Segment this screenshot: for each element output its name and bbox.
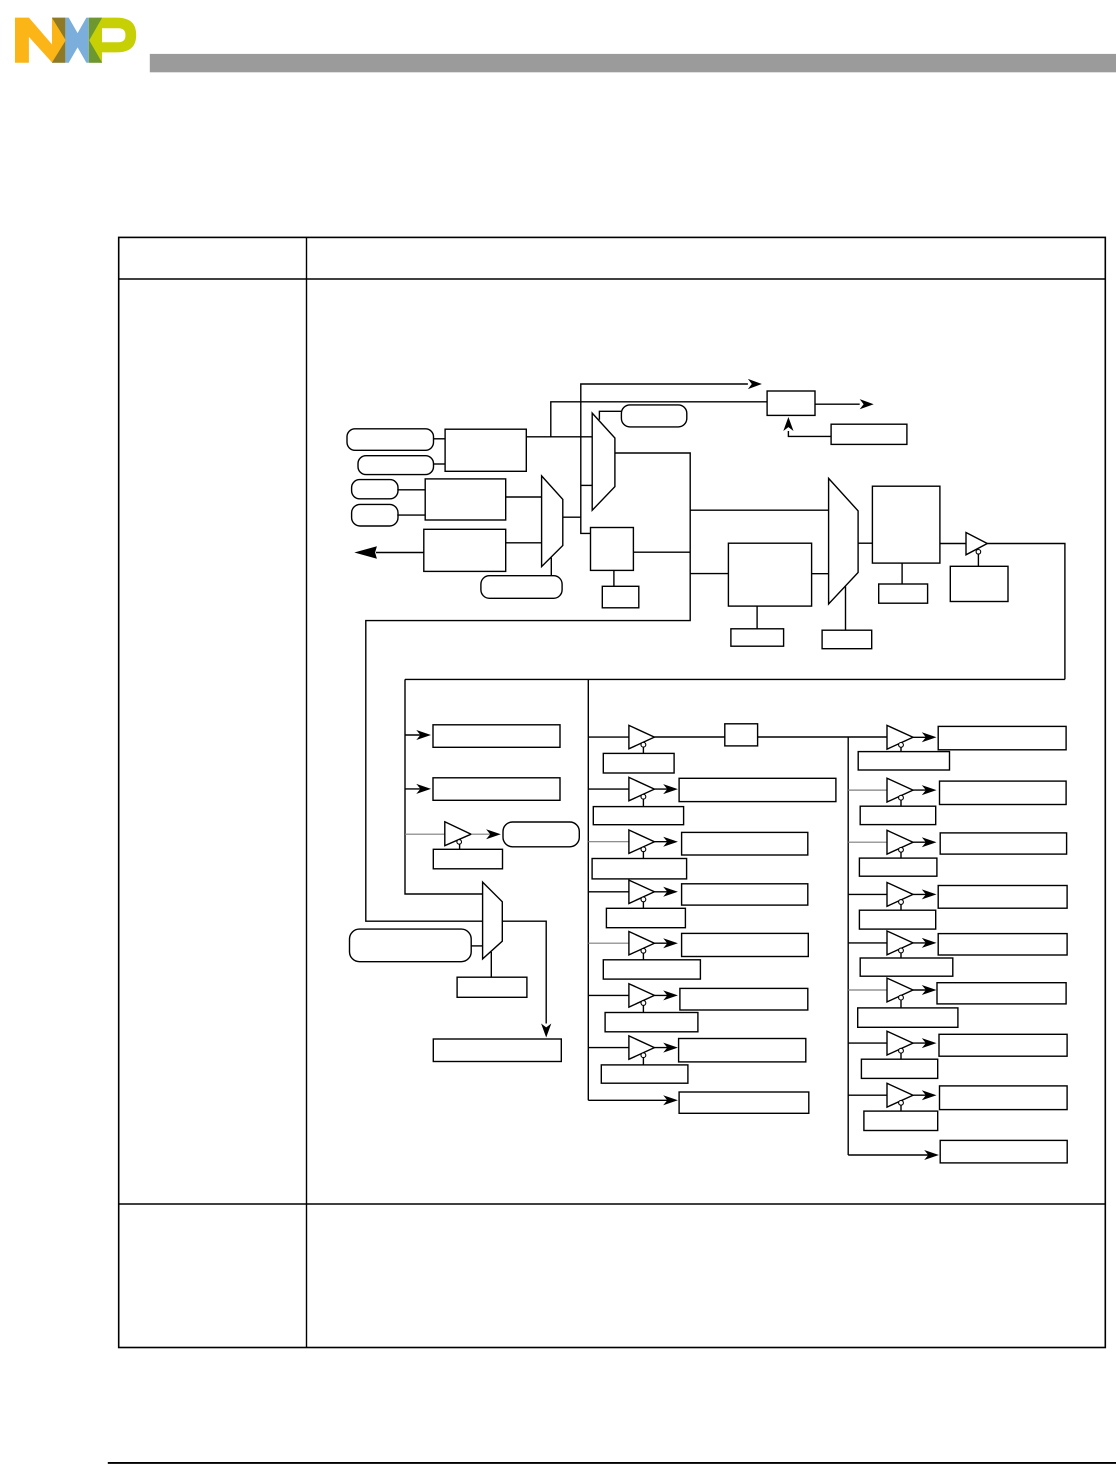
buffer TB1 (triangle): [966, 533, 987, 555]
TB output arrowhead: [860, 399, 874, 409]
Ta output arrow: [471, 833, 492, 835]
stem M4 to box M4b: [845, 586, 847, 630]
stem L7 bubble to box: [642, 1058, 644, 1065]
buffer L6 (triangle): [629, 984, 655, 1007]
wire TR to mux M2: [599, 411, 621, 420]
buffer R3 (triangle): [887, 830, 913, 854]
stem M3 to box M3b: [490, 952, 492, 977]
rounded input box A (top left): [347, 429, 434, 451]
L5 output arrow: [654, 942, 672, 944]
buffer R2 (triangle): [887, 778, 913, 802]
arrowhead into rounded box RRa: [486, 829, 501, 839]
stem R6 bubble to box: [900, 1000, 902, 1008]
arrowhead into box L3r: [663, 837, 678, 847]
wire trunk to block CR: [690, 573, 728, 575]
NXP logo letter P bowl (lime): [102, 18, 136, 53]
NXP logo N/X overlap band (olive): [52, 18, 65, 63]
box R9r (arrow row box): [940, 1140, 1067, 1163]
right clock bus vertical: [847, 737, 849, 1155]
box R3b (gate box): [859, 858, 937, 876]
box L4b (gate box): [606, 908, 685, 927]
arrowhead into box L5r: [663, 938, 678, 948]
buffer L6 bubble: [641, 1001, 646, 1006]
buffer L5 bubble: [641, 948, 646, 953]
wire SB to right column: [758, 736, 887, 738]
wire C to F: [397, 489, 425, 491]
wire bus to buffer R4: [848, 893, 887, 895]
container left drop to mux M3: [405, 679, 483, 894]
arrowhead into box L7r: [663, 1043, 678, 1053]
box R8r (peripheral): [940, 1086, 1068, 1110]
R3 output arrow: [913, 841, 931, 843]
wire S output joining trunk: [633, 551, 690, 553]
box R4r (peripheral): [938, 886, 1067, 909]
mux M1: [542, 476, 563, 567]
buffer L1 (triangle): [629, 725, 655, 748]
wire RR to buffer TB1: [940, 543, 966, 545]
wire G to mux M1: [506, 542, 542, 544]
box L2: [433, 778, 560, 801]
arrowhead into box R7r: [922, 1038, 937, 1048]
arrowhead into box L6r: [663, 990, 678, 1000]
rounded box RRa: [503, 822, 579, 847]
box CRb below CR: [731, 629, 784, 646]
wire trunk to mux M4: [690, 509, 828, 511]
box R2b (gate box): [860, 806, 936, 824]
arrowhead into box R4r: [922, 889, 937, 899]
buffer L2 bubble: [641, 794, 646, 799]
small box SB: [725, 724, 758, 746]
buffer L2 (triangle): [629, 777, 655, 800]
box R6r (peripheral): [937, 983, 1066, 1004]
arrowhead into box R5r: [922, 938, 937, 948]
box R7r (peripheral): [939, 1034, 1067, 1056]
stem R3 bubble to box: [900, 852, 902, 858]
buffer R5 (triangle): [887, 931, 913, 955]
rounded input box D: [352, 504, 398, 526]
wire trunk to mux M2: [581, 484, 592, 486]
L3 output arrow: [654, 841, 672, 843]
left output arrow from G: [376, 552, 424, 554]
wire TB1 output down to container line: [987, 544, 1065, 680]
buffer R1 (triangle): [887, 725, 913, 749]
buffer TB1 bubble: [976, 550, 981, 555]
table second row divider: [119, 1203, 1106, 1205]
buffer R7 bubble: [899, 1048, 904, 1053]
arrowhead into box R1r: [922, 732, 937, 742]
wire D to F: [397, 514, 425, 516]
box R1r (peripheral): [938, 726, 1066, 749]
box L6b (gate box): [605, 1013, 698, 1032]
box L3r (peripheral): [682, 832, 808, 855]
box R3r (peripheral): [940, 833, 1066, 854]
buffer L5 (triangle): [629, 932, 655, 955]
buffer R4 (triangle): [887, 883, 913, 907]
block F: [425, 479, 506, 520]
R2 output arrow: [913, 789, 931, 791]
R8 output arrow: [913, 1094, 931, 1096]
buffer L3 (triangle): [629, 830, 655, 853]
wire bus to buffer R2: [848, 789, 887, 791]
box L1: [433, 725, 560, 748]
table header row bottom border: [119, 278, 1106, 280]
wire bus to buffer R6: [848, 989, 887, 991]
wire arrow into box L2: [405, 788, 425, 790]
wire E to mux M2: [526, 436, 592, 438]
stem R2 bubble to box: [900, 800, 902, 806]
block CR (center): [728, 543, 811, 606]
wire CR to mux M4: [812, 573, 829, 575]
buffer L7 (triangle): [629, 1036, 655, 1059]
buffer R6 bubble: [899, 995, 904, 1000]
buffer R8 bubble: [899, 1100, 904, 1105]
box L5b (gate box): [603, 960, 700, 979]
wire bus to buffer L1: [588, 736, 629, 738]
down arrowhead into W: [541, 1024, 551, 1038]
buffer L4 (triangle): [629, 880, 655, 903]
wire bus to buffer R3: [848, 841, 887, 843]
rounded input box C: [352, 480, 398, 499]
box S2 below S: [602, 586, 639, 608]
L2 output arrow: [654, 788, 672, 790]
NXP logo letter N (orange): [15, 18, 52, 63]
stem S to box S2: [613, 570, 615, 586]
box R5r (peripheral): [938, 934, 1067, 955]
arrowhead into box R2r: [922, 785, 937, 795]
box R6b (gate box): [858, 1008, 958, 1027]
stem R4 bubble to box: [900, 905, 902, 911]
stem L2 bubble to box: [642, 799, 644, 806]
wire arrow into box L1: [405, 734, 425, 736]
wire row1 buffer to small box SB: [654, 736, 724, 738]
stem L6 bubble to box: [642, 1006, 644, 1013]
box R5b (gate box): [860, 958, 953, 976]
top box TB: [767, 391, 815, 415]
L4 output arrow: [654, 891, 672, 893]
arrowhead into box L2: [416, 784, 431, 794]
box L1b (gate box): [603, 753, 674, 773]
stem R1 bubble to box: [900, 748, 902, 752]
buffer R1 bubble: [899, 743, 904, 748]
R4 output arrow: [913, 893, 931, 895]
stem mux M1 to rounded box RB: [550, 558, 552, 576]
stem Ta bubble to box Tab: [459, 844, 461, 849]
buffer L1 bubble: [641, 742, 646, 747]
wire RRL to mux M3: [471, 945, 482, 947]
left arrow-row arrowhead: [663, 1095, 678, 1105]
buffer L3 bubble: [641, 847, 646, 852]
box TB1b below TB1: [950, 566, 1008, 601]
mux M3: [483, 882, 503, 959]
box M3b below M3: [457, 977, 527, 997]
wire bus to buffer L4: [588, 891, 629, 893]
wire E branch up to top box TB: [551, 402, 767, 437]
box L8r (arrow row box): [679, 1092, 809, 1113]
box L2r (peripheral): [679, 778, 836, 801]
buffer R6 (triangle): [887, 978, 913, 1002]
top arrowhead pointing right: [748, 379, 762, 389]
L7 output arrow: [654, 1047, 672, 1049]
block E (oscillator block): [445, 429, 526, 471]
stem L3 bubble to box: [642, 852, 644, 859]
wire R to TB with up arrow: [788, 431, 831, 436]
mux M2: [592, 413, 615, 510]
box W (wide, bottom left): [433, 1039, 561, 1062]
arrowhead into box R3r: [922, 837, 937, 847]
NXP logo lime chevron (P showing through X notch): [89, 18, 102, 62]
wire M4 to block RR: [858, 542, 872, 544]
box RRb below RR: [879, 584, 928, 603]
R5 output arrow: [913, 942, 931, 944]
wire bus to buffer L7: [588, 1047, 629, 1049]
R1 output arrow: [913, 736, 931, 738]
rounded input box B: [358, 456, 434, 475]
stem L4 bubble to box: [642, 902, 644, 908]
vertical trunk wire (M1 out / to top arrow / to S): [581, 384, 748, 533]
up arrowhead into TB: [783, 417, 793, 431]
left clock bus vertical: [587, 679, 589, 1100]
box R4b (gate box): [859, 910, 935, 929]
stem R8 bubble to box: [900, 1105, 902, 1111]
box L3b (gate box): [592, 859, 687, 879]
box L7r (peripheral): [679, 1039, 806, 1062]
buffer R4 bubble: [899, 900, 904, 905]
wire bus to buffer R8: [848, 1094, 887, 1096]
wire M2 output trunk with feedback: [366, 453, 690, 921]
arrowhead into box L1: [416, 730, 431, 740]
mux M4: [829, 478, 859, 604]
wire bus to buffer L5: [588, 942, 629, 944]
footer rule: [108, 1462, 1116, 1464]
block S (square below M2): [591, 528, 634, 571]
wire bus to buffer L6: [588, 994, 629, 996]
buffer R3 bubble: [899, 847, 904, 852]
buffer R8 (triangle): [887, 1083, 913, 1107]
rounded box RRL (big, lower left): [350, 929, 472, 962]
buffer L7 bubble: [641, 1053, 646, 1058]
wire M3 output down to W: [502, 921, 546, 1023]
arrowhead into box L4r: [663, 887, 678, 897]
stem TB1 to box TB1b: [977, 554, 979, 566]
NXP logo X/P overlap band (dark green): [89, 18, 102, 63]
stem L1 bubble to box: [642, 747, 644, 753]
R7 output arrow: [913, 1042, 931, 1044]
wire A to E: [434, 438, 446, 440]
wire B to E: [434, 463, 446, 465]
box R8b (gate box): [864, 1111, 938, 1130]
L6 output arrow: [654, 994, 672, 996]
right arrow-row arrowhead: [924, 1150, 939, 1160]
rounded box RB below mux M1: [481, 576, 562, 599]
NXP logo letter X (blue): [65, 18, 88, 63]
wire F to mux M1: [505, 496, 541, 498]
buffer L4 bubble: [641, 897, 646, 902]
right arrow-row wire: [848, 1154, 932, 1156]
buffer Ta bubble: [457, 840, 462, 845]
stem L5 bubble to box: [642, 953, 644, 959]
box R7b (gate box): [861, 1059, 937, 1078]
rounded box TR (top right of M2): [621, 405, 686, 427]
header gray bar: [150, 54, 1116, 72]
box L5r (peripheral): [682, 933, 809, 956]
wire bus to buffer R7: [848, 1042, 887, 1044]
left arrow-row wire: [588, 1099, 672, 1101]
stem CR to box CRb: [756, 606, 758, 629]
box Tab below Ta: [433, 849, 502, 869]
R6 output arrow: [913, 989, 931, 991]
buffer Ta (triangle): [445, 822, 471, 846]
box R1b (gate box): [858, 752, 949, 770]
box L6r (peripheral): [680, 988, 808, 1010]
stem RR to box RRb: [901, 563, 903, 584]
buffer R7 (triangle): [887, 1031, 913, 1055]
buffer R5 bubble: [899, 948, 904, 953]
NXP logo orange chevron (N showing through X notch): [52, 18, 66, 63]
table column divider: [306, 237, 308, 1347]
left output arrowhead: [354, 546, 377, 559]
wire bus to buffer L3: [588, 841, 629, 843]
wire bus to buffer R5: [848, 942, 887, 944]
box R (right of TB): [831, 424, 907, 444]
wire bus to buffer L2: [588, 788, 629, 790]
arrowhead into box L2r: [663, 784, 678, 794]
box R2r (peripheral): [940, 781, 1067, 804]
block G: [424, 529, 506, 571]
box L7b (gate box): [601, 1065, 688, 1083]
arrowhead into box R8r: [922, 1090, 937, 1100]
container top line: [405, 678, 1065, 680]
wire TB output arrow: [815, 403, 860, 405]
wire into buffer Ta: [405, 833, 445, 835]
table outer border: [119, 237, 1106, 1347]
wire M1 output to vertical trunk: [563, 516, 581, 518]
stem R5 bubble to box: [900, 953, 902, 958]
box L4r (peripheral): [682, 884, 808, 905]
box M4b below M4: [822, 630, 872, 649]
arrowhead into box R6r: [922, 985, 937, 995]
stem R7 bubble to box: [900, 1053, 902, 1059]
buffer R2 bubble: [899, 795, 904, 800]
box L2b (gate box): [593, 807, 683, 825]
block RR: [872, 486, 940, 563]
